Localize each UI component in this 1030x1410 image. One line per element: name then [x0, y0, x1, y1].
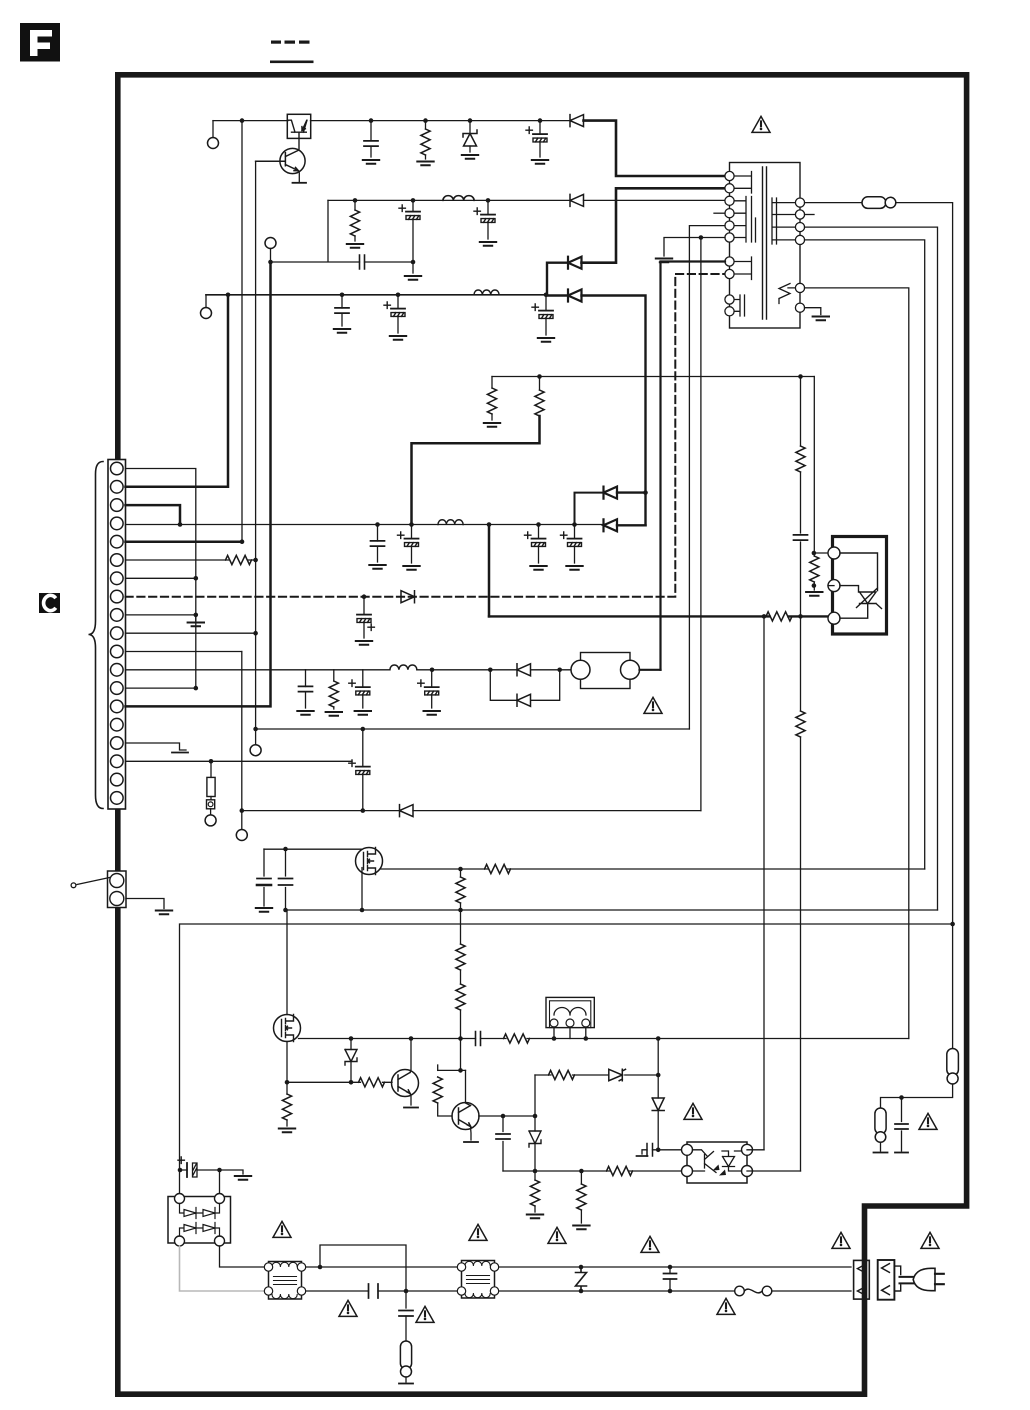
- U2 pin 2: [828, 580, 840, 592]
- junction dots mid rails: [362, 235, 803, 599]
- warning triangle bottom row 2: [469, 1224, 487, 1240]
- riser x658.2: [657, 1039, 659, 1099]
- resistor R10: [333, 670, 335, 709]
- transformer T1 body: [730, 163, 801, 329]
- wire pin3 thick joining pin4 rail: [126, 505, 181, 524]
- electrolytic capacitor C12: [574, 525, 576, 564]
- inductor L1: [443, 196, 474, 201]
- rail row2 y200.4: [328, 199, 725, 201]
- series capacitor C26: [369, 1284, 379, 1298]
- resistor R5: [796, 446, 805, 472]
- resistor R23: [580, 1171, 582, 1184]
- diode D1: [570, 115, 584, 127]
- AC live between filters: [306, 1266, 462, 1268]
- coupling capacitor C5 horizontal: [360, 255, 365, 269]
- riser x256 from Q1 base: [255, 162, 257, 745]
- resistor R22: [534, 1171, 536, 1180]
- resistor R21: [607, 1166, 633, 1175]
- electrolytic capacitor C8: [545, 295, 547, 335]
- switch ground stub: [126, 899, 164, 909]
- resistor R6 on pin6 wire: [226, 555, 252, 564]
- diode D2: [570, 194, 584, 206]
- wire pin17 long with tap: [126, 760, 353, 762]
- mains plug P1: [894, 1266, 900, 1291]
- connector C pin 6: [111, 554, 124, 567]
- main drive rail y1038.5: [299, 1038, 909, 1040]
- branch to diode D5: [575, 493, 604, 525]
- line filter LF2: [462, 1261, 495, 1299]
- parallel diodes D8 D9: [490, 670, 571, 701]
- dashed rail diode D7: [401, 591, 415, 603]
- wire pin2 thick to riser x228: [126, 295, 229, 487]
- electrolytic capacitor C2: [539, 121, 541, 157]
- resistor R2: [354, 200, 356, 241]
- resistor R19: [437, 1065, 439, 1070]
- bridge rectifier DB1: [168, 1197, 231, 1244]
- rail y670 continued: inductor L4: [390, 665, 417, 670]
- warning triangle right column: [919, 1113, 937, 1129]
- connector C pin 11: [111, 645, 124, 658]
- transformer T1 pin circles right: [795, 198, 804, 312]
- Q6 source down: [286, 1042, 288, 1083]
- wire pin1 to riser: [126, 469, 196, 689]
- capacitor C20: [285, 849, 287, 910]
- rail y376.5: [492, 376, 814, 378]
- rail y1082.3: [287, 1081, 392, 1083]
- U2 pin 1: [828, 547, 840, 559]
- rail y1171 to opto: [503, 1170, 682, 1172]
- resistor R13: [460, 910, 462, 944]
- junction dots on connector wires: [178, 522, 258, 813]
- MOSFET Q6: [286, 910, 288, 1015]
- power switch S1 on border: [108, 871, 127, 908]
- connector C pin 15: [111, 718, 124, 731]
- wire T1 pin6 to ground with tap: [664, 238, 725, 257]
- test point circle TP6: [210, 809, 212, 815]
- warning triangle bottom row 3: [548, 1227, 566, 1243]
- corner riser x814.3: [814, 377, 828, 554]
- U4 output wires: [747, 1150, 801, 1171]
- wire T1 secondary to riser x924.7: [805, 240, 925, 869]
- fuse F1: [735, 1286, 745, 1296]
- AC neutral wire gray: [180, 1246, 269, 1291]
- warning triangle bottom row 5: [832, 1232, 850, 1248]
- wire pin7 to riser: [126, 577, 196, 579]
- wire pin13 to riser: [126, 687, 196, 689]
- connector C pin 1: [111, 462, 124, 475]
- DB1 internal diodes: [180, 1204, 220, 1237]
- resistor R20: [549, 1070, 575, 1079]
- electrolytic capacitor C17: [431, 670, 433, 708]
- DB1 pin 3: [175, 1236, 185, 1246]
- connector C pin 9: [111, 609, 124, 622]
- resistor R18 below Q6: [286, 1082, 288, 1094]
- capacitor C19: [263, 849, 265, 906]
- junction dots top rails: [226, 118, 549, 297]
- surge arrester Z1: [576, 1267, 587, 1291]
- warning triangle bottom row 4: [641, 1236, 659, 1252]
- connector C pin 18: [111, 773, 124, 786]
- connector C body: [108, 460, 126, 810]
- transformer T1 shield symbol: [779, 284, 800, 304]
- transistor Q3: [392, 1070, 419, 1097]
- C connector label box: [39, 593, 60, 613]
- riser x242 from node A: [241, 121, 243, 542]
- electrolytic capacitor C18: [362, 729, 364, 811]
- zener ZD3: [534, 1075, 536, 1131]
- AC inlet connector J1: [854, 1260, 870, 1299]
- wire T1 shield to riser x908.8: [805, 288, 909, 1039]
- drive transformer T2: [546, 997, 594, 1027]
- row2 corner to coupling node: [271, 200, 414, 262]
- photo triac coupler U2 box: [833, 537, 887, 635]
- F page label box: [20, 23, 60, 62]
- U2 internal triac: [840, 553, 882, 618]
- U4 pin 1: [682, 1144, 693, 1155]
- Q4 collector riser: [438, 1039, 466, 1071]
- warning triangle cap: [339, 1300, 357, 1316]
- warning triangle below U3: [644, 697, 662, 713]
- feedback tap thick riser x489: [488, 525, 491, 617]
- T2 pin b: [566, 1019, 574, 1027]
- capacitor C14: [794, 535, 808, 540]
- MOSFET Q5: [356, 848, 383, 875]
- warning triangle near D17: [684, 1103, 702, 1119]
- DB1 pin 1: [175, 1194, 185, 1204]
- riser to bridge pin right: [219, 1170, 221, 1199]
- page frame border with bottom-right notch: [118, 75, 967, 1394]
- photodiode box D15: [287, 114, 310, 138]
- connector C pin 4: [111, 517, 124, 530]
- wire T1 pin5 to riser x689: [689, 226, 725, 729]
- connector C pin 19: [111, 792, 124, 805]
- wire D1 to transformer pin1 thick: [584, 121, 726, 176]
- connector C pin 13: [111, 682, 124, 695]
- wire pin14 thick to riser x270.5: [126, 262, 271, 706]
- ground at T1 shield pin: [805, 308, 821, 315]
- capacitor C1: [370, 121, 372, 157]
- AC plug connector J2: [878, 1260, 895, 1300]
- diode D6: [604, 519, 618, 531]
- DB1 pin 2: [215, 1194, 225, 1204]
- riser x800.5 chain: [800, 377, 802, 1172]
- wire pin8 dashed standby rail: [126, 274, 726, 597]
- junction dots rails 616-810: [361, 551, 817, 813]
- test point TP2: [265, 238, 276, 249]
- test point TP1: [208, 138, 219, 149]
- transistor Q4: [452, 1103, 479, 1130]
- wire pin6 with series resistor: [126, 559, 256, 561]
- Q5 drain rail y869: [381, 868, 925, 870]
- connector C pin 14: [111, 700, 124, 713]
- connector C pin 10: [111, 627, 124, 640]
- rail y924: [180, 924, 953, 1199]
- gate snubber capacitor C23: [642, 1150, 658, 1154]
- connector C pin 3: [111, 499, 124, 512]
- Q5 source to rail y910: [361, 868, 363, 910]
- transformer T1 pin circles left: [725, 171, 734, 316]
- capacitor C24: [901, 1098, 903, 1152]
- electrolytic capacitor C10: [411, 525, 413, 564]
- Y-cap detour loop: [320, 1245, 406, 1291]
- title dashes: [270, 41, 314, 64]
- transistor Q1: [280, 148, 305, 173]
- electrolytic capacitor C7: [397, 295, 399, 333]
- capacitor C15: [305, 670, 307, 708]
- resistor chain R12: [460, 869, 462, 877]
- connector C pin 2: [111, 481, 124, 494]
- wire pin16 stub with termination: [126, 743, 187, 750]
- transformer T1 secondary winding bars: [772, 198, 800, 244]
- wire pin12 rail y670 start: [126, 669, 306, 671]
- wire T1 pin7 thick riser x660.5: [661, 262, 726, 670]
- warning triangle pill: [416, 1306, 434, 1322]
- U4 pin 3: [742, 1144, 753, 1155]
- connector C pin 16: [111, 737, 124, 750]
- DB1 pin 4: [215, 1236, 225, 1246]
- resistor R9: [813, 553, 815, 556]
- rail y849 gate supply: [264, 848, 362, 850]
- line filter LF1: [269, 1262, 302, 1300]
- connector C pin 5: [111, 535, 124, 548]
- test point TP3: [201, 308, 212, 319]
- fuse FP1 pill at T1 secondary: [805, 202, 863, 204]
- test point circle TP4: [250, 745, 261, 756]
- electrolytic capacitor C16: [362, 670, 364, 708]
- connector C pin 12: [111, 664, 124, 677]
- connector C pin 7: [111, 572, 124, 585]
- electrolytic capacitor C25 bulk: [180, 1170, 243, 1174]
- ground at pin9 node: [195, 615, 197, 621]
- electrolytic capacitor C11: [538, 525, 540, 564]
- diode D17 vertical: [652, 1098, 664, 1111]
- junction dots power stage: [283, 847, 955, 1174]
- test point circle TP5: [236, 830, 247, 841]
- optocoupler U4 box: [687, 1142, 747, 1183]
- switch lever: [77, 878, 110, 885]
- resistor R4 thick tail: [539, 377, 541, 391]
- zener ZD2: [350, 1039, 352, 1050]
- inductor L3: [438, 520, 463, 525]
- AC live wire from bridge: [220, 1246, 269, 1267]
- capacitor C22: [502, 1116, 504, 1171]
- surge pill FP4: [400, 1341, 411, 1369]
- U2 pin 3: [828, 612, 840, 624]
- electrolytic capacitor C13 on dashed rail: [363, 597, 365, 638]
- wire pin10 to riser x256: [126, 632, 256, 634]
- warning triangle fuse: [717, 1298, 735, 1314]
- T2 pin a: [550, 1019, 558, 1027]
- LF1 pin circles: [264, 1263, 305, 1295]
- capacitor C27 column: [405, 1291, 407, 1308]
- inductor L2: [474, 290, 499, 295]
- opto pair coupler U3: [581, 653, 631, 689]
- resistor R7 on feedback rail: [766, 612, 792, 621]
- capacitor C6: [341, 295, 343, 326]
- resistor R8: [796, 711, 805, 737]
- series capacitor C21: [476, 1032, 481, 1046]
- wire T1 secondary pin stub: [805, 214, 815, 216]
- fusible resistor R17: [210, 761, 212, 777]
- wire T1 secondary to riser x937.5: [805, 227, 938, 910]
- zener diode ZD1: [469, 121, 471, 152]
- wire pin5 thick to riser x242: [126, 540, 243, 543]
- U4 pin 2: [682, 1166, 693, 1177]
- LF2 pin circles: [457, 1263, 498, 1295]
- junction dots AC section: [178, 1168, 673, 1294]
- wire pin11 to riser x241.8: [126, 651, 242, 653]
- rail y729: [256, 728, 690, 730]
- wire T1 pin4 stub: [714, 212, 725, 214]
- wire pin9 to riser with ground: [126, 614, 196, 616]
- brace for connector C: [89, 462, 104, 809]
- resistor R3: [491, 377, 493, 421]
- warning triangle near T1: [752, 116, 770, 132]
- electrolytic capacitor C3: [412, 200, 414, 273]
- resistor R16: [359, 1078, 385, 1087]
- snubber rail y1075: [535, 1074, 658, 1076]
- resistor R1: [425, 121, 427, 159]
- AC neutral between filters with series cap: [306, 1290, 462, 1292]
- diode D5: [604, 487, 618, 499]
- riser x241.8 down to rail y810 and test point: [241, 652, 243, 830]
- rail y524 components: capacitor C9: [377, 525, 379, 563]
- Q4 output rail y1116: [479, 1115, 535, 1117]
- electrolytic capacitor C4: [487, 200, 489, 239]
- connector C pin 8: [111, 590, 124, 603]
- U4 pin 4: [742, 1166, 753, 1177]
- diode pair D3 upper thick: [568, 257, 582, 269]
- transformer T1 primary winding bars: [730, 172, 752, 194]
- surge pill FP2 right column: [947, 1049, 959, 1076]
- AC neutral to inlet with fuse: [499, 1290, 851, 1292]
- thermal fuse box F17: [210, 797, 212, 800]
- AC live to inlet: [499, 1266, 851, 1268]
- diode D16: [609, 1069, 626, 1080]
- connector C pin 17: [111, 755, 124, 768]
- riser x700.9: [700, 238, 702, 811]
- rail row1 y120.6: [213, 120, 288, 122]
- feedback rail y616.4 thick: [489, 615, 829, 617]
- U2 pin2 wire: [828, 585, 834, 587]
- resistor R15: [504, 1034, 530, 1043]
- resistor R14: [460, 970, 462, 984]
- riser x764 to optocoupler: [763, 616, 765, 1149]
- X capacitor C28: [669, 1267, 671, 1291]
- transformer T1 core: [763, 167, 767, 319]
- wire pin4 output rail y524: [126, 524, 604, 526]
- warning triangle bottom row 6: [921, 1232, 939, 1248]
- warning triangle bottom row 1: [273, 1221, 291, 1237]
- rail row3 y294.8: [206, 294, 547, 296]
- surge pill FP3: [875, 1108, 886, 1134]
- rail y810.6 with diode D10: [242, 810, 701, 812]
- T2 pin c: [582, 1019, 590, 1027]
- rail y910: [286, 909, 938, 911]
- resistor R11: [485, 864, 511, 873]
- U4 internal LED and sensor: [693, 1150, 717, 1173]
- diode pair D4 lower thick: [568, 290, 582, 302]
